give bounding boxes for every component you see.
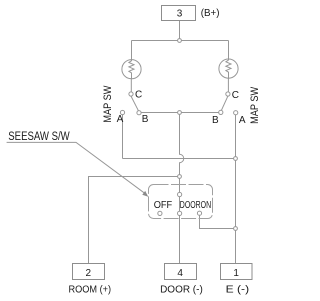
svg-text:4: 4 (177, 268, 183, 279)
svg-text:A: A (239, 115, 246, 126)
left switch blade C to B (131, 96, 138, 111)
connector 2 box (73, 264, 105, 280)
junction A-E wire / E line (234, 157, 238, 161)
connector 1 box (221, 264, 253, 280)
wire right drop to lamp (228, 41, 230, 59)
wire right A down to connector 1 (235, 115, 237, 264)
svg-text:A: A (117, 114, 124, 125)
svg-text:OFF: OFF (154, 199, 173, 211)
contact A right (234, 111, 238, 115)
wire left drop to lamp (131, 41, 133, 60)
leader line from SEESAW S/W label (7, 142, 147, 194)
wire right lamp to contact C (227, 78, 229, 92)
right switch blade C to B (221, 96, 228, 111)
wire top rail (132, 40, 229, 42)
wire A to E horizontal (123, 158, 236, 160)
wire left A down (122, 115, 124, 159)
connector 3 box (162, 6, 196, 21)
lamp left (map lamp) (122, 60, 141, 79)
contact ON (197, 211, 201, 215)
svg-text:SEESAW S/W: SEESAW S/W (8, 131, 70, 143)
junction B wire / center line (178, 111, 182, 115)
wire B to B horizontal (139, 112, 221, 114)
contact C left (129, 92, 133, 96)
contact OFF (158, 211, 162, 215)
junction ROOM wire / center line (178, 175, 182, 179)
svg-text:MAP SW: MAP SW (249, 86, 261, 124)
svg-text:DOORON: DOORON (180, 199, 211, 211)
svg-text:B: B (142, 114, 149, 125)
contact circles (open) (120, 39, 237, 231)
wire left lamp to contact C (130, 79, 132, 92)
contact A left (120, 110, 124, 114)
svg-text:3: 3 (177, 8, 183, 19)
contact C right (226, 92, 230, 96)
svg-text:MAP SW: MAP SW (102, 85, 114, 123)
svg-text:E (-): E (-) (226, 283, 249, 295)
svg-text:C: C (135, 90, 142, 101)
seesaw switch enclosure (dash-dot rounded box) (149, 185, 213, 219)
svg-text:(B+): (B+) (201, 7, 220, 19)
leader arrowhead (142, 191, 148, 197)
seesaw common contact (178, 192, 182, 196)
contact B right (219, 110, 223, 114)
connector 4 box (165, 264, 197, 280)
junction ON wire / E line (234, 227, 238, 231)
wire ON contact to E line (200, 215, 236, 228)
contact DOOR (178, 211, 182, 215)
wire center with hop over A-E wire (180, 113, 184, 264)
svg-text:ROOM (+): ROOM (+) (69, 283, 112, 295)
junction at top rail (178, 39, 182, 43)
svg-text:1: 1 (233, 268, 239, 279)
svg-text:C: C (232, 90, 239, 101)
svg-text:B: B (212, 115, 219, 126)
lamp right (map lamp) (219, 59, 238, 78)
wire ROOM connector 2 up and right (89, 177, 180, 264)
contact B left (137, 111, 141, 115)
svg-text:2: 2 (86, 268, 92, 279)
wire from connector 3 down to top rail (179, 21, 181, 41)
svg-text:DOOR (-): DOOR (-) (160, 283, 203, 295)
